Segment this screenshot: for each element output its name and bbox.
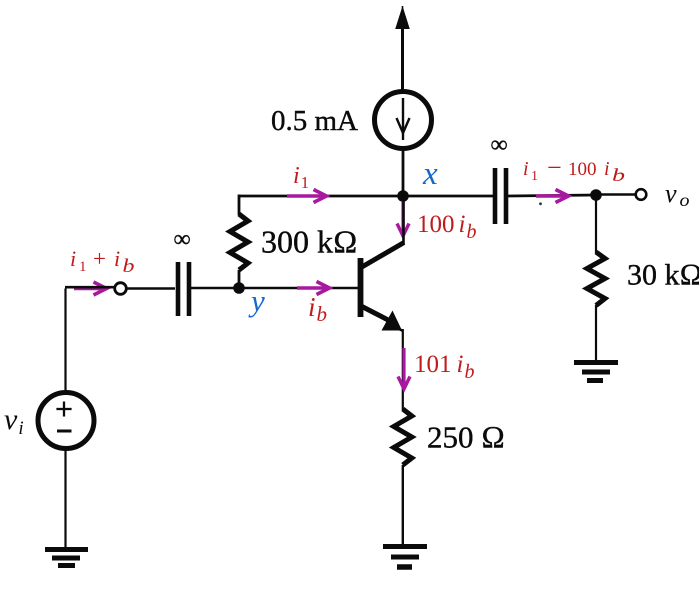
current arrow i1 [287, 190, 327, 203]
wire source to ground [64, 448, 66, 547]
wire capacitor C1 to node y [191, 287, 239, 290]
resistor 300k [230, 214, 248, 270]
svg-text:y: y [248, 283, 265, 318]
svg-text:30 kΩ: 30 kΩ [627, 259, 699, 292]
svg-text:i: i [70, 246, 76, 271]
current arrow i1+ib [74, 282, 107, 295]
svg-text:b: b [612, 165, 625, 185]
current arrow i1-100ib [536, 190, 569, 203]
current arrow 101 ib (emitter current) [398, 348, 410, 389]
capacitor C2 (output coupling) [495, 168, 506, 224]
svg-text:−: − [547, 153, 562, 182]
label i1 + ib (red) [70, 246, 135, 277]
svg-text:i: i [523, 158, 529, 180]
wire node x to output capacitor [403, 195, 493, 198]
svg-text:0.5 mA: 0.5 mA [271, 105, 358, 137]
svg-text:x: x [422, 156, 438, 192]
node y junction dot [233, 282, 245, 294]
svg-text:1: 1 [79, 259, 87, 275]
capacitor C1 (input coupling) [178, 262, 189, 316]
wire emitter down [402, 329, 404, 410]
svg-text:250 Ω: 250 Ω [427, 420, 505, 455]
svg-text:+: + [93, 246, 106, 271]
svg-text:1: 1 [531, 169, 538, 184]
output junction node [590, 189, 602, 201]
current arrow ib [297, 282, 330, 295]
supply wire (top vertical with up arrow) [395, 6, 410, 90]
svg-text:ib: ib [308, 292, 327, 326]
wire top-left horizontal (node x to resistor corner) [239, 195, 403, 198]
resistor 300k bottom lead [238, 270, 241, 288]
node x junction dot [397, 190, 409, 202]
wire resistor 250 to ground [402, 465, 404, 545]
svg-text:100: 100 [568, 159, 597, 180]
voltage source vi [38, 393, 94, 449]
svg-text:∞: ∞ [490, 132, 507, 158]
wire capacitor to output node [508, 195, 596, 196]
wire input terminal to capacitor C1 [126, 287, 175, 290]
label i1 - 100 ib (red) [523, 153, 625, 185]
resistor 30k vertical leads [595, 195, 597, 253]
wire input corner down to source [65, 287, 115, 391]
resistor 250 [394, 409, 412, 465]
svg-text:i1: i1 [293, 163, 309, 192]
base wire (node y to transistor) [239, 287, 358, 290]
svg-text:101ib: 101ib [414, 351, 474, 383]
output terminal (open circle) [636, 189, 647, 200]
scan speck [539, 202, 542, 205]
svg-text:∞: ∞ [173, 227, 190, 253]
transistor Q1 [358, 243, 404, 332]
svg-text:vo: vo [665, 179, 690, 210]
wire resistor to ground [595, 305, 597, 361]
ground (left) [45, 550, 88, 566]
resistor 300k top lead and corner [238, 195, 241, 216]
svg-text:vi: vi [4, 403, 24, 439]
wire collector to node x [402, 196, 405, 244]
current source I (0.5 mA) [375, 92, 432, 149]
svg-text:i: i [604, 158, 610, 180]
current arrow 100 ib (down from node x) [397, 201, 409, 236]
input terminal (open circle) [115, 283, 127, 295]
ground (right) [574, 363, 618, 381]
svg-text:b: b [123, 256, 135, 277]
svg-text:100ib: 100ib [417, 211, 476, 243]
wire current-source to node x [402, 149, 405, 196]
ground (middle) [383, 547, 427, 568]
wire to output terminal [596, 193, 635, 196]
resistor 30k [587, 252, 605, 306]
svg-text:300 kΩ: 300 kΩ [261, 224, 358, 260]
svg-text:i: i [114, 246, 120, 271]
